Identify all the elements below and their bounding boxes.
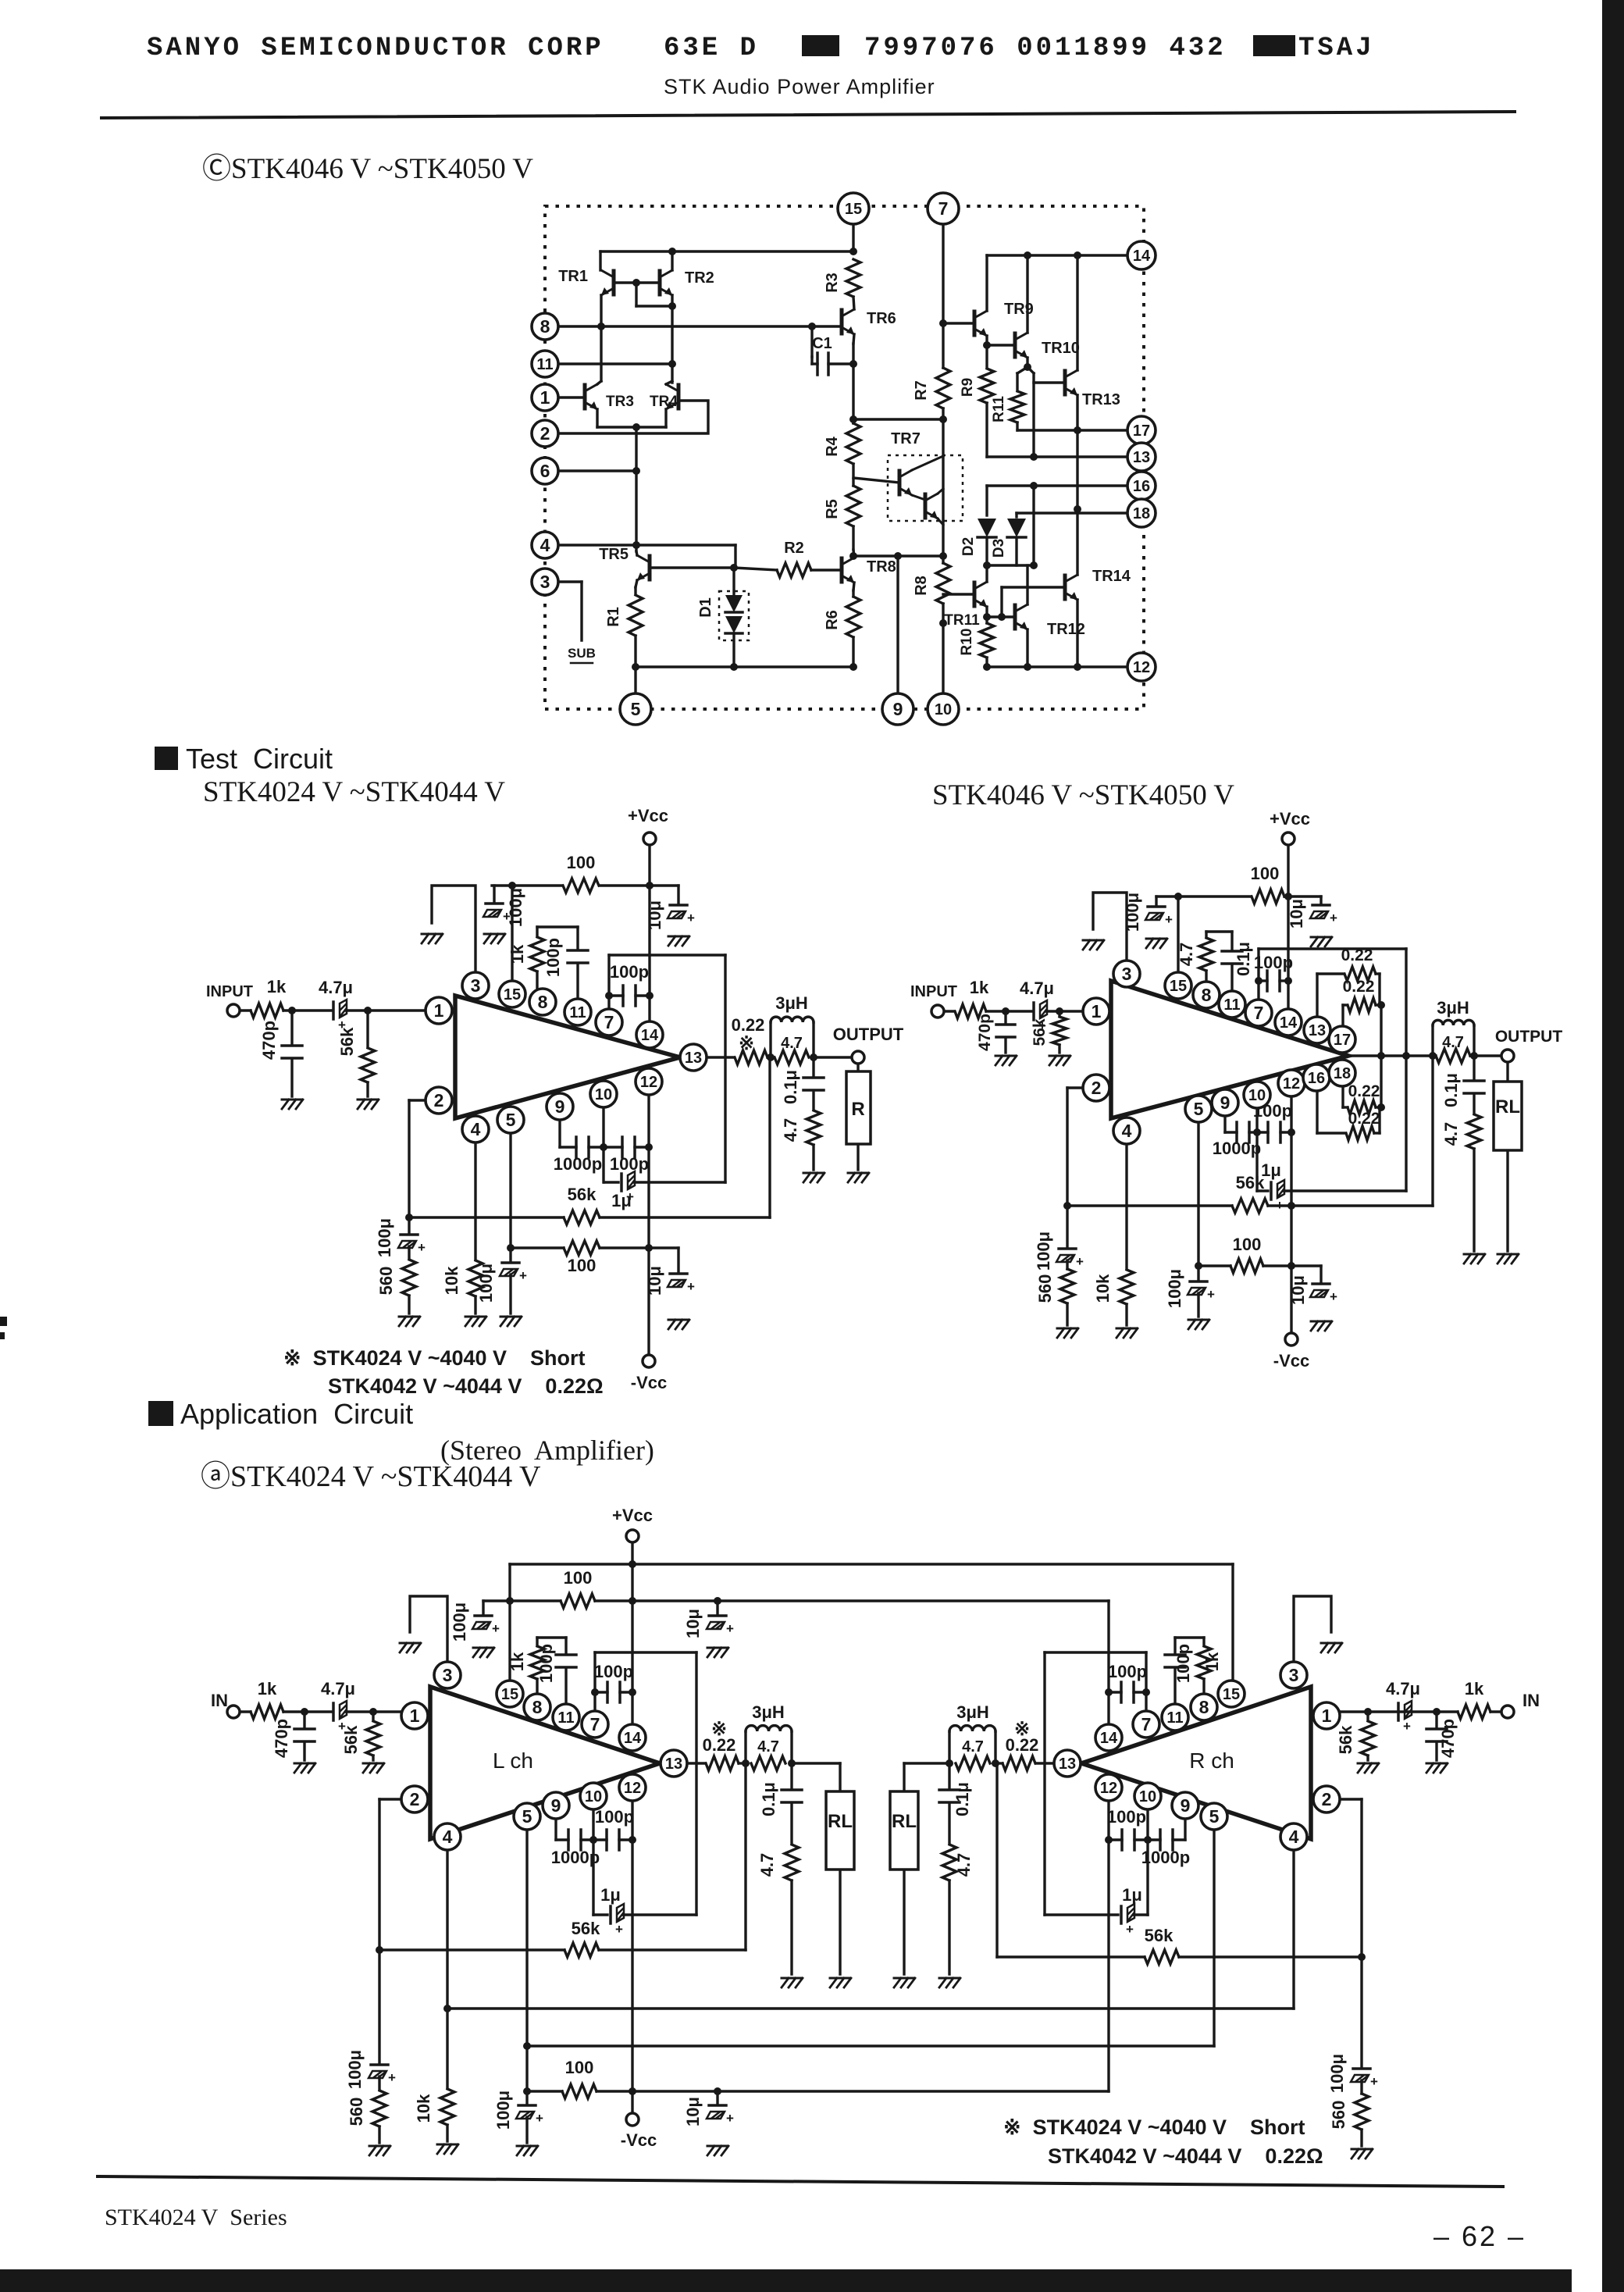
svg-text:0.22: 0.22 — [1348, 1110, 1380, 1128]
svg-text:470p: 470p — [1438, 1719, 1458, 1758]
svg-text:Test Circuit: Test Circuit — [186, 743, 333, 775]
svg-text:10k: 10k — [1093, 1274, 1113, 1303]
svg-text:100p: 100p — [610, 1154, 649, 1174]
svg-text:※ STK4024 V ~4040 V Short: ※ STK4024 V ~4040 V Short — [283, 1346, 586, 1370]
svg-text:1k: 1k — [1202, 1652, 1222, 1671]
svg-text:10k: 10k — [414, 2094, 433, 2123]
svg-text:1000p: 1000p — [554, 1154, 602, 1174]
svg-text:18: 18 — [1334, 1065, 1351, 1082]
svg-text:-Vcc: -Vcc — [631, 1373, 667, 1392]
svg-text:3μH: 3μH — [956, 1702, 989, 1722]
svg-text:SUB: SUB — [568, 646, 596, 661]
svg-text:14: 14 — [1100, 1730, 1118, 1747]
svg-text:4.7: 4.7 — [781, 1035, 803, 1052]
svg-text:10: 10 — [1139, 1788, 1156, 1805]
svg-text:4.7: 4.7 — [781, 1118, 800, 1142]
svg-text:R4: R4 — [824, 436, 841, 456]
svg-text:4.7: 4.7 — [1177, 943, 1196, 967]
svg-text:TR6: TR6 — [867, 310, 896, 327]
svg-text:2: 2 — [1322, 1789, 1332, 1809]
svg-text:56k: 56k — [572, 1919, 600, 1938]
svg-text:Application Circuit: Application Circuit — [180, 1398, 413, 1430]
svg-text:4.7: 4.7 — [757, 1738, 779, 1756]
svg-text:100μ: 100μ — [1327, 2054, 1347, 2093]
svg-text:12: 12 — [1283, 1075, 1300, 1093]
svg-text:4: 4 — [540, 535, 550, 555]
svg-text:100μ: 100μ — [493, 2091, 513, 2130]
svg-text:2: 2 — [540, 423, 550, 444]
svg-text:TSAJ: TSAJ — [1298, 34, 1375, 63]
svg-text:1k: 1k — [507, 944, 527, 964]
svg-text:18: 18 — [1133, 505, 1150, 522]
svg-text:8: 8 — [532, 1697, 543, 1717]
svg-text:R11: R11 — [991, 396, 1007, 422]
svg-text:4: 4 — [1122, 1121, 1132, 1141]
svg-text:10: 10 — [595, 1086, 612, 1103]
svg-text:1000p: 1000p — [1213, 1139, 1261, 1158]
svg-text:TR13: TR13 — [1082, 391, 1120, 408]
svg-text:TR1: TR1 — [558, 268, 588, 285]
svg-text:-Vcc: -Vcc — [1273, 1351, 1309, 1371]
svg-text:4: 4 — [1289, 1827, 1299, 1847]
svg-text:OUTPUT: OUTPUT — [1495, 1028, 1563, 1046]
svg-text:STK4024 V Series: STK4024 V Series — [105, 2205, 287, 2230]
svg-text:8: 8 — [1202, 985, 1212, 1005]
svg-text:8: 8 — [1199, 1697, 1209, 1717]
svg-text:+: + — [492, 1621, 500, 1636]
svg-text:56k: 56k — [568, 1185, 597, 1204]
svg-text:TR3: TR3 — [606, 394, 634, 410]
svg-text:7: 7 — [938, 198, 949, 219]
svg-text:TR7: TR7 — [891, 430, 921, 447]
svg-text:+: + — [1330, 1289, 1337, 1304]
svg-text:1μ: 1μ — [611, 1191, 632, 1210]
svg-text:+: + — [388, 2070, 396, 2085]
svg-text:10μ: 10μ — [1288, 1275, 1308, 1305]
svg-text:11: 11 — [536, 356, 553, 373]
svg-text:12: 12 — [1100, 1780, 1117, 1797]
svg-text:0.22: 0.22 — [1341, 946, 1373, 964]
svg-text:– 62 –: – 62 – — [1433, 2220, 1526, 2252]
svg-text:R8: R8 — [913, 576, 930, 596]
svg-text:16: 16 — [1133, 478, 1150, 495]
svg-text:+Vcc: +Vcc — [612, 1506, 653, 1525]
svg-text:+: + — [687, 911, 695, 925]
svg-text:56k: 56k — [337, 1027, 357, 1056]
svg-text:TR11: TR11 — [944, 612, 980, 629]
svg-text:0.1μ: 0.1μ — [759, 1782, 778, 1816]
svg-text:R2: R2 — [784, 540, 804, 557]
svg-text:4.7μ: 4.7μ — [321, 1679, 355, 1699]
svg-text:17: 17 — [1133, 422, 1150, 440]
svg-text:10μ: 10μ — [645, 900, 664, 930]
svg-text:100μ: 100μ — [450, 1602, 469, 1641]
svg-text:OUTPUT: OUTPUT — [833, 1025, 904, 1044]
svg-text:100μ: 100μ — [1034, 1232, 1053, 1271]
svg-text:0.22: 0.22 — [1348, 1082, 1380, 1100]
svg-text:0.1μ: 0.1μ — [1441, 1073, 1461, 1107]
svg-text:1k: 1k — [970, 978, 989, 997]
svg-text:13: 13 — [1309, 1022, 1326, 1039]
svg-text:TR14: TR14 — [1092, 568, 1131, 585]
svg-text:+: + — [536, 2111, 543, 2126]
svg-text:R6: R6 — [824, 610, 841, 630]
svg-text:TR9: TR9 — [1004, 301, 1034, 318]
svg-text:8: 8 — [540, 316, 550, 337]
svg-text:RL: RL — [828, 1811, 853, 1832]
svg-text:100p: 100p — [1108, 1662, 1147, 1681]
svg-text:RL: RL — [892, 1811, 917, 1832]
svg-text:10μ: 10μ — [1287, 899, 1306, 929]
svg-text:63E D: 63E D — [664, 34, 759, 63]
svg-text:14: 14 — [624, 1730, 642, 1747]
svg-text:100p: 100p — [595, 1807, 634, 1827]
svg-text:+: + — [687, 1279, 695, 1294]
svg-text:C1: C1 — [812, 335, 832, 352]
svg-text:INPUT: INPUT — [206, 983, 253, 1000]
svg-text:3μH: 3μH — [1437, 998, 1469, 1018]
svg-text:100p: 100p — [1254, 953, 1293, 972]
svg-text:ⒸSTK4046 V ~STK4050 V: ⒸSTK4046 V ~STK4050 V — [202, 152, 533, 185]
svg-text:100μ: 100μ — [1123, 893, 1142, 932]
svg-text:0.22: 0.22 — [732, 1015, 765, 1035]
svg-text:+: + — [726, 2111, 734, 2126]
svg-text:1k: 1k — [1465, 1679, 1484, 1699]
svg-text:5: 5 — [1194, 1099, 1204, 1119]
svg-text:4.7: 4.7 — [962, 1738, 984, 1756]
svg-text:11: 11 — [1166, 1709, 1183, 1727]
svg-text:56k: 56k — [1031, 1018, 1049, 1046]
svg-text:D1: D1 — [697, 597, 714, 618]
svg-text:10: 10 — [585, 1788, 602, 1805]
svg-text:56k: 56k — [341, 1725, 361, 1754]
svg-text:※: ※ — [739, 1033, 754, 1054]
svg-text:12: 12 — [1133, 659, 1150, 676]
svg-text:3: 3 — [540, 572, 550, 592]
svg-text:15: 15 — [1170, 978, 1187, 995]
svg-text:10μ: 10μ — [645, 1266, 664, 1296]
svg-text:+: + — [615, 1922, 623, 1937]
svg-text:STK4024 V ~STK4044 V: STK4024 V ~STK4044 V — [203, 776, 505, 808]
svg-text:-Vcc: -Vcc — [621, 2130, 657, 2150]
svg-text:11: 11 — [557, 1709, 574, 1727]
svg-text:13: 13 — [685, 1050, 702, 1067]
svg-text:+: + — [1126, 1922, 1134, 1937]
svg-text:17: 17 — [1334, 1032, 1351, 1049]
svg-text:100p: 100p — [543, 938, 563, 977]
svg-text:+: + — [418, 1240, 426, 1255]
svg-text:R3: R3 — [824, 273, 841, 293]
svg-text:+: + — [1276, 1198, 1284, 1213]
svg-text:7: 7 — [1254, 1003, 1264, 1023]
svg-text:15: 15 — [501, 1686, 518, 1703]
svg-text:10μ: 10μ — [683, 1609, 703, 1638]
svg-text:14: 14 — [1280, 1014, 1298, 1032]
svg-text:※: ※ — [1014, 1719, 1030, 1740]
svg-text:11: 11 — [569, 1004, 586, 1021]
svg-text:+Vcc: +Vcc — [628, 806, 668, 825]
svg-text:+Vcc: +Vcc — [1270, 809, 1310, 829]
svg-text:100: 100 — [1233, 1235, 1262, 1254]
svg-text:9: 9 — [551, 1795, 561, 1816]
svg-text:1k: 1k — [267, 977, 287, 996]
svg-text:R: R — [851, 1099, 864, 1120]
svg-text:12: 12 — [624, 1780, 641, 1797]
svg-text:1000p: 1000p — [551, 1848, 600, 1867]
svg-text:560: 560 — [376, 1267, 396, 1296]
svg-text:STK Audio Power Amplifier: STK Audio Power Amplifier — [664, 75, 935, 98]
svg-text:TR12: TR12 — [1047, 621, 1085, 638]
svg-text:9: 9 — [555, 1096, 565, 1117]
svg-text:+: + — [1330, 911, 1337, 925]
svg-text:7: 7 — [590, 1714, 600, 1734]
svg-text:5: 5 — [631, 699, 641, 719]
svg-text:+: + — [726, 1621, 734, 1636]
svg-text:INPUT: INPUT — [910, 983, 957, 1000]
svg-text:1: 1 — [1092, 1001, 1102, 1021]
svg-text:100μ: 100μ — [375, 1218, 394, 1257]
svg-text:15: 15 — [845, 201, 862, 218]
svg-text:100: 100 — [565, 2058, 594, 2077]
svg-text:R9: R9 — [960, 378, 976, 397]
svg-text:3: 3 — [1289, 1665, 1299, 1685]
svg-text:470p: 470p — [259, 1021, 279, 1060]
svg-text:15: 15 — [504, 986, 521, 1003]
svg-text:56k: 56k — [1336, 1725, 1355, 1754]
svg-text:TR4: TR4 — [650, 394, 678, 410]
svg-text:IN: IN — [211, 1691, 228, 1710]
svg-text:0.1μ: 0.1μ — [953, 1782, 972, 1816]
svg-text:9: 9 — [1220, 1093, 1230, 1113]
svg-text:1: 1 — [540, 387, 550, 408]
svg-text:100p: 100p — [610, 962, 649, 982]
svg-text:STK4046 V ~STK4050 V: STK4046 V ~STK4050 V — [932, 779, 1234, 811]
svg-text:10: 10 — [935, 701, 952, 718]
svg-text:100p: 100p — [594, 1662, 633, 1681]
svg-text:R5: R5 — [824, 499, 841, 519]
svg-text:+: + — [519, 1268, 527, 1283]
svg-text:7997076 0011899 432: 7997076 0011899 432 — [864, 34, 1227, 63]
svg-text:13: 13 — [1059, 1756, 1076, 1773]
svg-text:100μ: 100μ — [476, 1264, 496, 1303]
svg-text:※: ※ — [711, 1719, 727, 1740]
svg-text:13: 13 — [1133, 449, 1150, 466]
svg-text:1k: 1k — [507, 1652, 527, 1671]
svg-text:100μ: 100μ — [1165, 1269, 1184, 1308]
svg-text:1: 1 — [1322, 1706, 1332, 1726]
svg-text:D2: D2 — [960, 537, 977, 556]
svg-text:+: + — [1165, 912, 1173, 927]
svg-text:3: 3 — [471, 975, 481, 996]
svg-text:100μ: 100μ — [345, 2050, 365, 2089]
svg-text:4: 4 — [471, 1119, 481, 1139]
svg-text:3: 3 — [443, 1665, 453, 1685]
svg-text:4.7: 4.7 — [1442, 1034, 1464, 1051]
svg-text:8: 8 — [538, 992, 548, 1012]
svg-text:100p: 100p — [536, 1644, 556, 1683]
svg-text:4: 4 — [443, 1827, 453, 1847]
svg-text:5: 5 — [506, 1110, 516, 1130]
svg-text:3: 3 — [1122, 964, 1132, 984]
svg-text:13: 13 — [665, 1756, 682, 1773]
svg-text:15: 15 — [1223, 1686, 1240, 1703]
svg-text:TR2: TR2 — [685, 269, 714, 287]
svg-text:14: 14 — [641, 1027, 659, 1044]
svg-text:TR8: TR8 — [867, 558, 896, 576]
svg-text:1000p: 1000p — [1141, 1848, 1190, 1867]
svg-text:100p: 100p — [1107, 1807, 1146, 1827]
svg-text:470p: 470p — [272, 1719, 291, 1758]
svg-text:4.7: 4.7 — [1441, 1122, 1461, 1146]
svg-text:56k: 56k — [1145, 1926, 1173, 1945]
svg-text:0.1μ: 0.1μ — [781, 1070, 800, 1104]
svg-text:100: 100 — [1251, 864, 1280, 883]
svg-text:SANYO SEMICONDUCTOR CORP: SANYO SEMICONDUCTOR CORP — [147, 34, 604, 63]
svg-text:4.7μ: 4.7μ — [1386, 1679, 1420, 1699]
svg-text:470p: 470p — [976, 1014, 994, 1051]
svg-text:2: 2 — [434, 1090, 444, 1110]
svg-text:14: 14 — [1133, 248, 1151, 265]
svg-text:100μ: 100μ — [506, 888, 525, 927]
svg-text:5: 5 — [1209, 1806, 1220, 1827]
svg-text:TR10: TR10 — [1042, 340, 1080, 357]
svg-text:4.7: 4.7 — [954, 1853, 974, 1877]
svg-text:1μ: 1μ — [600, 1885, 621, 1905]
svg-text:IN: IN — [1522, 1691, 1540, 1710]
svg-text:3μH: 3μH — [775, 993, 808, 1013]
svg-text:RL: RL — [1495, 1096, 1520, 1117]
svg-text:7: 7 — [604, 1012, 614, 1032]
svg-text:11: 11 — [1223, 996, 1240, 1014]
svg-text:9: 9 — [1181, 1795, 1191, 1816]
svg-text:10μ: 10μ — [683, 2097, 703, 2126]
svg-text:3μH: 3μH — [752, 1702, 785, 1722]
svg-text:+: + — [1403, 1719, 1411, 1734]
svg-text:9: 9 — [893, 699, 903, 719]
svg-text:10k: 10k — [442, 1266, 461, 1295]
svg-text:TR5: TR5 — [599, 546, 629, 563]
svg-text:100: 100 — [568, 1256, 597, 1275]
svg-text:100: 100 — [567, 853, 596, 872]
svg-text:560: 560 — [1035, 1274, 1055, 1303]
svg-text:0.1μ: 0.1μ — [1234, 942, 1253, 976]
svg-text:D3: D3 — [991, 539, 1007, 558]
svg-text:16: 16 — [1308, 1070, 1325, 1087]
svg-text:L ch: L ch — [493, 1748, 533, 1773]
svg-text:100p: 100p — [1173, 1644, 1193, 1683]
svg-text:4.7: 4.7 — [757, 1853, 777, 1877]
svg-text:5: 5 — [522, 1806, 532, 1827]
svg-text:R1: R1 — [605, 607, 622, 627]
svg-text:R ch: R ch — [1189, 1748, 1234, 1773]
svg-text:1μ: 1μ — [1122, 1885, 1142, 1905]
svg-text:2: 2 — [1092, 1078, 1102, 1098]
svg-text:2: 2 — [410, 1789, 420, 1809]
svg-text:4.7μ: 4.7μ — [1020, 978, 1054, 998]
svg-text:4.7μ: 4.7μ — [319, 978, 353, 997]
svg-text:+: + — [1076, 1254, 1084, 1269]
svg-text:560: 560 — [347, 2098, 366, 2126]
svg-text:10: 10 — [1248, 1087, 1266, 1104]
svg-text:0.22: 0.22 — [1343, 978, 1375, 996]
svg-text:6: 6 — [540, 461, 550, 481]
svg-text:560: 560 — [1329, 2101, 1348, 2130]
svg-text:7: 7 — [1141, 1714, 1152, 1734]
svg-text:R7: R7 — [913, 380, 930, 401]
svg-text:1: 1 — [434, 1000, 444, 1021]
svg-text:100: 100 — [564, 1568, 593, 1588]
svg-text:56k: 56k — [1236, 1173, 1265, 1192]
svg-text:12: 12 — [640, 1074, 657, 1091]
svg-text:STK4042 V ~4044 V 0.22Ω: STK4042 V ~4044 V 0.22Ω — [328, 1374, 604, 1398]
svg-text:※ STK4024 V ~4040 V Short: ※ STK4024 V ~4040 V Short — [1003, 2116, 1305, 2139]
svg-text:+: + — [1207, 1287, 1215, 1302]
svg-text:+: + — [1370, 2074, 1378, 2089]
svg-text:1: 1 — [410, 1706, 420, 1726]
svg-text:ⓐSTK4024 V ~STK4044 V: ⓐSTK4024 V ~STK4044 V — [201, 1460, 541, 1493]
svg-text:STK4042 V ~4044 V 0.22Ω: STK4042 V ~4044 V 0.22Ω — [1048, 2144, 1323, 2168]
svg-text:1k: 1k — [258, 1679, 277, 1699]
svg-text:R10: R10 — [959, 629, 975, 656]
